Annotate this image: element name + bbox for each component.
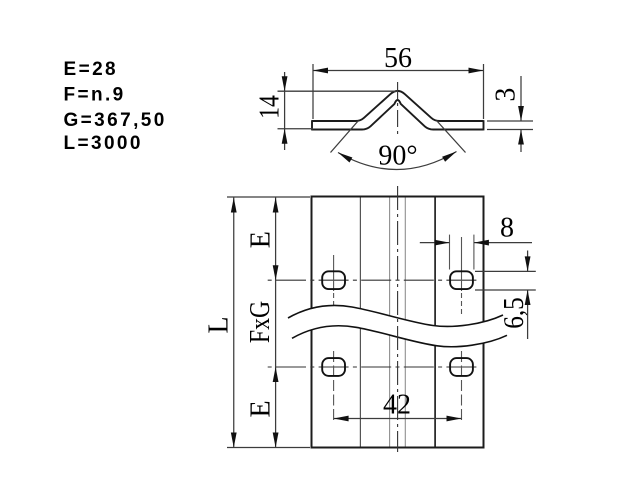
hole vertical centerline top-right [461, 237, 463, 291]
dim 6,5 arrow upper [525, 256, 531, 271]
dim 3 extension bottom [487, 129, 533, 131]
break band mask [288, 305, 507, 346]
svg-text:8: 8 [500, 213, 514, 244]
dim L arrow top [231, 198, 237, 213]
dim 42 arrow left [334, 416, 349, 422]
dim 3 arrow upper [518, 106, 524, 121]
angle 90 arrow left [338, 153, 352, 163]
bend tangent line left of center [389, 198, 391, 447]
chain arrow top [273, 198, 279, 213]
dim 56 extension right [483, 64, 485, 119]
fold line left [359, 198, 361, 447]
dim 56 arrow right [469, 68, 484, 74]
dim L extension top [227, 196, 310, 198]
dim 8 arrow right [474, 240, 489, 246]
dim L arrow bottom [231, 433, 237, 448]
hole vertical centerline bottom-right [461, 351, 463, 424]
hole vertical centerline top-left [333, 255, 335, 291]
slotted hole top-left [322, 271, 345, 289]
dim 56 line [313, 70, 484, 72]
svg-text:L=3000: L=3000 [64, 133, 143, 154]
break wave lower [292, 326, 507, 347]
profile outer outline [312, 91, 484, 121]
svg-text:14: 14 [254, 95, 285, 119]
slotted hole top-right [450, 271, 473, 289]
hole centerline bottom row [265, 366, 477, 368]
dim 14 arrow upper [282, 76, 288, 91]
fold line right [434, 198, 436, 447]
dim 8 arrow left [435, 240, 450, 246]
dim 14 arrow lower [282, 129, 288, 144]
svg-text:L: L [204, 316, 235, 333]
angle 90 arrow right [442, 152, 456, 162]
dim 8 line right tail [474, 242, 532, 244]
svg-text:E: E [246, 400, 277, 417]
profile left end cap [311, 120, 313, 130]
hole centerline top row [265, 279, 477, 281]
svg-text:E: E [245, 231, 276, 248]
dim 56 arrow left [313, 68, 328, 74]
slotted hole bottom-left [322, 358, 345, 376]
dim 42 arrow right [447, 416, 462, 422]
svg-text:56: 56 [384, 43, 412, 74]
svg-text:90°: 90° [378, 141, 417, 172]
break wave upper [288, 305, 503, 326]
chain arrows at first hole row [273, 265, 279, 280]
angle 90 left extension [331, 121, 359, 153]
dim 14 extension top [278, 90, 399, 92]
dim 14 extension bottom [278, 128, 314, 130]
dim 8 extension left [449, 235, 451, 270]
dim L line [233, 198, 235, 448]
svg-text:E=28: E=28 [64, 59, 119, 80]
dim 56 extension left [312, 64, 314, 119]
dim 6,5 arrow lower [525, 290, 531, 305]
dim 6,5 extension top [475, 270, 536, 272]
parameter text block [64, 59, 167, 154]
dim 14 line [284, 72, 286, 150]
dim 6,5 line upper tail [527, 251, 529, 272]
svg-text:G=367,50: G=367,50 [64, 110, 167, 131]
profile right end cap [483, 120, 485, 130]
hole vertical centerline bottom-left [333, 351, 335, 424]
dim 42 line [334, 418, 462, 420]
section centerline [397, 82, 399, 136]
dim E/FxG chain line [275, 198, 277, 448]
angle 90 arc [338, 152, 457, 170]
plan centerline vertical [397, 186, 399, 452]
chain arrows at second hole row [273, 367, 279, 382]
dim L extension bottom [227, 447, 310, 449]
dim 8 line left tail [420, 242, 450, 244]
profile inner outline [312, 100, 484, 130]
svg-text:FxG: FxG [244, 301, 275, 343]
dim 8 extension right [473, 235, 475, 270]
svg-text:F=n.9: F=n.9 [64, 85, 126, 106]
dim 3 line lower [520, 130, 522, 153]
svg-text:42: 42 [383, 390, 411, 421]
dim 3 extension top [487, 120, 533, 122]
svg-text:3: 3 [491, 88, 522, 102]
slotted hole bottom-right [450, 358, 473, 376]
angle 90 right extension [437, 121, 466, 153]
plate outline [312, 197, 484, 448]
dim 3 line upper [520, 76, 522, 121]
dim 6,5 line lower tail [527, 290, 529, 339]
dim 6,5 extension bottom [475, 289, 536, 291]
dim 3 arrow lower [518, 130, 524, 145]
chain arrow bottom [273, 433, 279, 448]
bend tangent line right of center [404, 198, 406, 447]
